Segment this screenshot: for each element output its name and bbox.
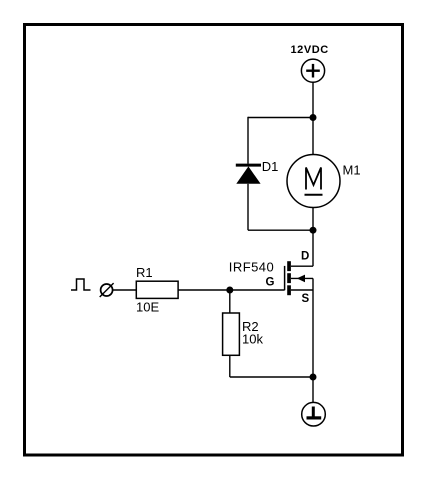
svg-text:R1: R1 [136,265,153,280]
drain lead [291,265,313,267]
node A (junction dot, motor top) [310,114,317,121]
wire source/body down to node C [312,278,314,377]
wire R2 bottom [229,355,231,377]
node B (junction dot, motor bottom) [310,227,317,234]
body lead with arrow [291,277,313,279]
transistor Q1 IRF540 (N-channel MOSFET) [285,261,313,295]
wire motor to node B [312,208,314,231]
svg-text:D: D [301,251,309,263]
channel bar drain [287,261,291,271]
resistor R1 [136,281,178,298]
gate bar [284,266,286,290]
svg-text:D1: D1 [262,159,279,174]
wire node B to diode branch bottom [248,229,313,231]
svg-text:12VDC: 12VDC [291,44,329,56]
pulse input symbol [71,279,91,290]
svg-text:S: S [302,293,310,305]
wire node D to R2 [229,290,231,313]
wire node A to motor [312,118,314,156]
channel bar body [287,273,291,283]
diode D1 [236,165,261,184]
node D (gate junction dot) [226,287,233,294]
wire R2 to node C [230,376,313,378]
wire node C to ground [312,377,314,403]
wire diode bottom lead [247,184,249,230]
svg-text:10E: 10E [136,300,159,315]
svg-text:M1: M1 [343,163,361,178]
wire node B to drain [312,230,314,266]
ground terminal [302,402,326,426]
svg-text:IRF540: IRF540 [229,260,274,275]
wire input to R1 [113,289,136,291]
input terminal (circle with slash) [100,283,114,297]
wire diode top lead [247,117,249,164]
node C (ground junction dot) [310,374,317,381]
wire supply to node A [312,82,314,117]
channel bar source [287,285,291,295]
svg-text:10k: 10k [242,332,263,347]
resistor R2 [223,313,240,355]
motor M1 [287,155,340,208]
wire node D to gate [230,289,285,291]
wire node A to diode branch top [248,117,313,119]
source lead [291,289,313,291]
svg-text:G: G [266,276,275,288]
supply terminal + (12VDC) [301,59,324,82]
wire R1 to node D [178,289,230,291]
